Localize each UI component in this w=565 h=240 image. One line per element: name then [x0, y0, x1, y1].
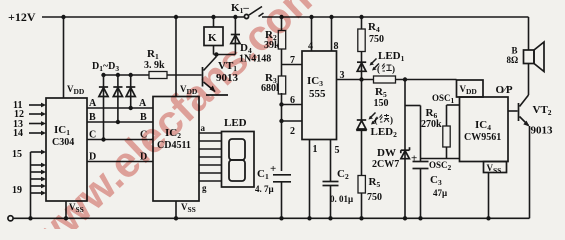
svg-text:270k: 270k [421, 119, 442, 130]
svg-text:750: 750 [369, 34, 384, 45]
svg-text:0. 01μ: 0. 01μ [330, 194, 353, 204]
svg-text:4: 4 [308, 41, 313, 52]
svg-text:B: B [89, 112, 96, 123]
svg-text:): ) [390, 115, 393, 125]
svg-text:DW: DW [377, 147, 396, 159]
svg-text:19: 19 [12, 185, 22, 196]
svg-text:A: A [139, 98, 147, 109]
svg-text:(: ( [377, 64, 380, 74]
svg-text:15: 15 [12, 149, 22, 160]
svg-text:9013: 9013 [531, 125, 554, 137]
svg-text:4. 7μ: 4. 7μ [255, 184, 274, 194]
svg-text:14: 14 [13, 128, 23, 139]
svg-text:g: g [202, 183, 207, 193]
svg-text:D1~D3: D1~D3 [92, 61, 119, 73]
svg-text:750: 750 [367, 192, 382, 203]
svg-text:C: C [89, 130, 96, 141]
svg-text:LED: LED [224, 117, 247, 129]
svg-text:3. 9k: 3. 9k [144, 60, 165, 71]
svg-text:): ) [392, 64, 395, 74]
svg-text:A: A [89, 98, 97, 109]
svg-text:C304: C304 [52, 137, 74, 148]
svg-text:555: 555 [309, 88, 326, 100]
svg-text:K: K [208, 32, 217, 44]
svg-text:7: 7 [290, 55, 295, 66]
svg-text:150: 150 [374, 98, 389, 109]
svg-text:1: 1 [313, 144, 318, 155]
svg-text:+: + [270, 163, 276, 175]
svg-text:(: ( [375, 115, 378, 125]
svg-text:CW9561: CW9561 [464, 132, 501, 143]
svg-text:8: 8 [334, 41, 339, 52]
svg-text:+: + [411, 153, 417, 165]
svg-text:8Ω: 8Ω [507, 55, 519, 65]
svg-text:5: 5 [335, 145, 340, 156]
svg-text:+12V: +12V [8, 10, 36, 24]
svg-text:6: 6 [290, 95, 295, 106]
svg-text:a: a [201, 123, 206, 133]
svg-text:47μ: 47μ [433, 188, 447, 198]
svg-text:2CW7: 2CW7 [372, 159, 399, 170]
svg-text:B: B [512, 46, 518, 56]
svg-text:2: 2 [290, 126, 295, 137]
svg-text:O∕P: O∕P [496, 84, 513, 96]
